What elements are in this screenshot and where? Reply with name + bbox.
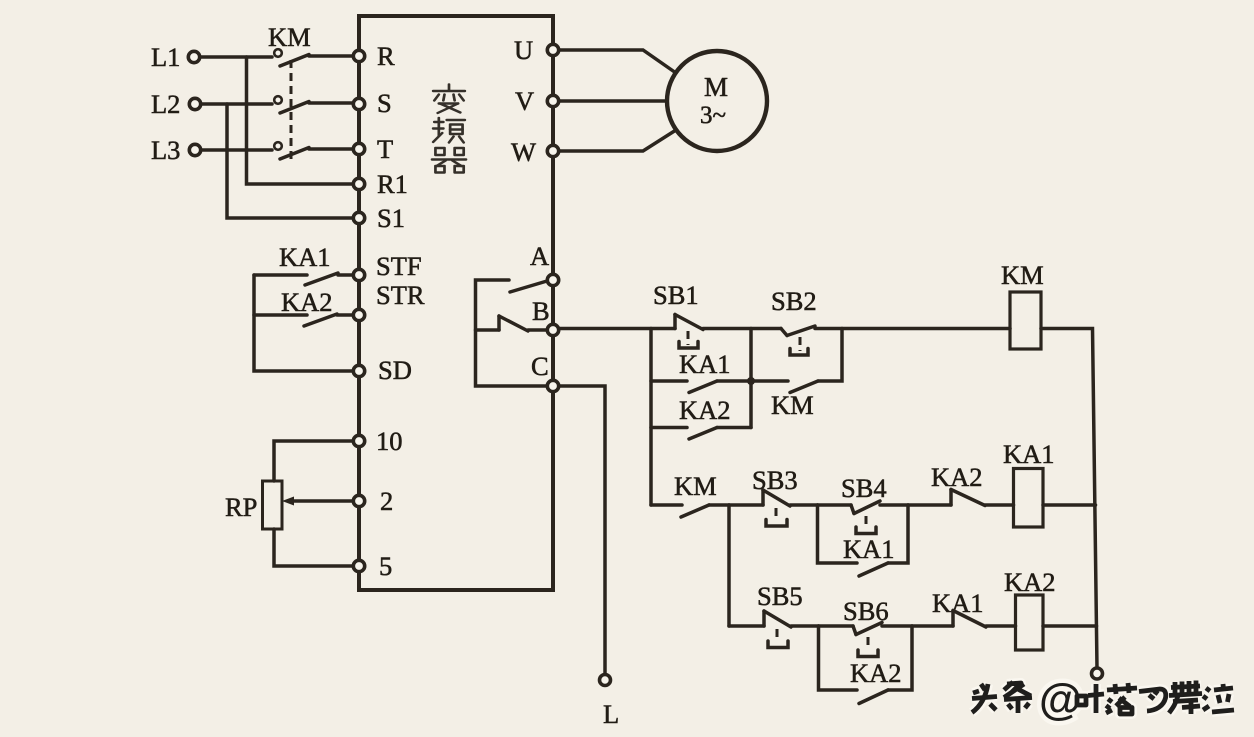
- drop wire to rung 3: [727, 505, 731, 626]
- pushbutton SB5 (NC): [757, 581, 803, 648]
- svg-text:KA2: KA2: [850, 658, 902, 688]
- wire tap L2 to S1: [227, 104, 353, 218]
- motor M 3~: [667, 51, 767, 151]
- svg-text:5: 5: [379, 551, 392, 581]
- inverter box 变频器: [359, 16, 553, 590]
- svg-text:STR: STR: [376, 280, 425, 310]
- wire to KA2 contact: [908, 503, 951, 507]
- terminal L3: [151, 135, 201, 165]
- mid rail: [749, 329, 753, 428]
- svg-text:L3: L3: [151, 135, 180, 165]
- wire SB5 to SB6: [791, 624, 819, 628]
- terminal L: [600, 675, 620, 730]
- terminal L1: [151, 42, 200, 72]
- svg-text:STF: STF: [376, 251, 422, 281]
- wire C to L terminal: [560, 386, 605, 674]
- svg-text:KM: KM: [268, 22, 311, 52]
- svg-text:KA1: KA1: [679, 349, 731, 379]
- wire KA1 coil to right rail: [1043, 503, 1096, 507]
- svg-text:10: 10: [376, 426, 403, 456]
- wire U to motor: [560, 50, 677, 73]
- relay contact KA2 (NC, rung 2): [931, 462, 1014, 506]
- relay contact to A (NO): [510, 281, 547, 292]
- pushbutton SB6 (NO): [819, 596, 913, 657]
- terminal S: [353, 88, 391, 118]
- terminal V: [515, 86, 559, 116]
- label 频 (inverter): [433, 118, 465, 143]
- terminal STR: [353, 280, 425, 321]
- contactor KM main contacts label: [268, 22, 311, 52]
- terminal STF: [353, 251, 421, 281]
- pushbutton SB4 (NO): [818, 473, 909, 534]
- svg-text:L1: L1: [151, 42, 180, 72]
- KM pole 3 (NO contact): [274, 142, 352, 159]
- svg-text:KA2: KA2: [1004, 567, 1056, 597]
- KM mechanical link (dashed): [290, 60, 293, 160]
- right rail end terminal: [1092, 668, 1103, 679]
- relay contact KA2 to STR: [254, 287, 353, 326]
- junction node: [747, 377, 755, 385]
- wire common to SD: [254, 275, 353, 371]
- terminal A: [530, 241, 559, 286]
- svg-text:SB5: SB5: [757, 581, 803, 611]
- left rail down from B wire: [649, 329, 653, 506]
- terminal W: [511, 137, 559, 167]
- svg-text:A: A: [530, 241, 549, 271]
- wire L3 to KM pole3: [202, 148, 273, 152]
- svg-text:C: C: [531, 351, 549, 381]
- wire KM coil to right rail: [1041, 329, 1097, 669]
- RP wiper arrow to terminal 2: [282, 497, 353, 506]
- svg-text:SB4: SB4: [841, 473, 887, 503]
- svg-text:R1: R1: [377, 169, 408, 199]
- auxiliary contact KM (rung 2): [651, 471, 729, 517]
- svg-text:L2: L2: [151, 89, 180, 119]
- wire SB1 to SB2: [703, 327, 781, 331]
- wire L1 to KM pole1: [201, 55, 273, 59]
- KM pole 2 (NO contact): [274, 96, 352, 113]
- svg-text:SB3: SB3: [752, 465, 798, 495]
- svg-text:3~: 3~: [700, 102, 726, 129]
- terminal T: [353, 134, 393, 164]
- svg-text:SD: SD: [378, 355, 412, 385]
- svg-text:R: R: [377, 41, 395, 71]
- terminal SD: [353, 355, 412, 385]
- svg-text:V: V: [515, 86, 534, 116]
- terminal 10: [353, 426, 402, 456]
- label 变 (inverter): [433, 85, 465, 114]
- svg-text:KM: KM: [1001, 260, 1044, 290]
- terminal U: [514, 35, 559, 65]
- pushbutton SB1 (NC): [653, 280, 703, 348]
- svg-text:KM: KM: [674, 471, 717, 501]
- svg-text:2: 2: [380, 486, 393, 516]
- terminal B: [532, 296, 559, 336]
- pushbutton SB3 (NC): [752, 465, 798, 526]
- wire W to motor: [560, 130, 677, 151]
- wire to SB5: [729, 624, 764, 628]
- wire 5 to RP bottom: [274, 529, 353, 566]
- svg-text:KM: KM: [771, 390, 814, 420]
- relay contact KA1 (NC, rung 3): [932, 588, 1016, 627]
- potentiometer RP: [225, 481, 282, 529]
- svg-text:U: U: [514, 35, 533, 65]
- svg-text:SB2: SB2: [771, 286, 817, 316]
- relay contact KA2 (parallel with SB6): [819, 626, 913, 704]
- wire tap L1 to R1: [247, 57, 353, 184]
- svg-text:L: L: [603, 699, 619, 729]
- svg-text:KA2: KA2: [679, 395, 731, 425]
- relay coil KA1: [1003, 439, 1055, 527]
- relay contact KA2 (parallel with SB1): [651, 395, 751, 439]
- svg-text:SB1: SB1: [653, 280, 699, 310]
- relay contact KA1 (parallel with SB4): [818, 505, 909, 576]
- svg-text:M: M: [704, 72, 728, 102]
- relay contact KA1 to STF: [254, 242, 353, 285]
- terminal 5: [353, 551, 392, 581]
- svg-text:RP: RP: [225, 492, 257, 522]
- wire SB3 to SB4: [790, 503, 818, 507]
- svg-text:T: T: [377, 134, 393, 164]
- svg-text:B: B: [532, 296, 550, 326]
- svg-text:W: W: [511, 137, 536, 167]
- svg-text:KA2: KA2: [931, 462, 983, 492]
- svg-text:KA2: KA2: [281, 287, 333, 317]
- svg-text:KA1: KA1: [279, 242, 331, 272]
- inverter relay output bracket wire: [476, 280, 549, 386]
- wire rail from B: [560, 327, 676, 331]
- wire KA2 coil to right rail: [1043, 624, 1097, 628]
- terminal 2: [353, 486, 393, 516]
- watermark 头条 @叶落飞舞泣: [972, 675, 1234, 724]
- svg-text:KA1: KA1: [843, 534, 895, 564]
- svg-text:KA1: KA1: [1003, 439, 1055, 469]
- wire L2 to KM pole2: [202, 102, 273, 106]
- terminal R1: [353, 169, 408, 199]
- relay contact to B (NC): [476, 316, 547, 331]
- KM pole 1 (NO contact): [274, 49, 352, 66]
- relay contact KA1 (parallel with SB1): [651, 349, 751, 393]
- auxiliary contact KM (parallel with SB2): [751, 329, 842, 421]
- wire SB2 to KM coil: [815, 327, 1010, 331]
- contactor coil KM: [1001, 260, 1044, 349]
- wire to KA1 contact: [912, 624, 953, 628]
- terminal C: [531, 351, 559, 392]
- wire to SB3: [729, 503, 763, 507]
- svg-text:S: S: [377, 88, 392, 118]
- wire V to motor: [560, 99, 668, 103]
- terminal L2: [151, 89, 201, 119]
- label 器 (inverter): [432, 148, 466, 173]
- svg-text:S1: S1: [377, 203, 405, 233]
- relay coil KA2: [1004, 567, 1056, 650]
- terminal R: [353, 41, 395, 71]
- wire 10 to RP top: [274, 441, 353, 481]
- pushbutton SB2 (NO): [771, 286, 817, 355]
- terminal S1: [353, 203, 405, 233]
